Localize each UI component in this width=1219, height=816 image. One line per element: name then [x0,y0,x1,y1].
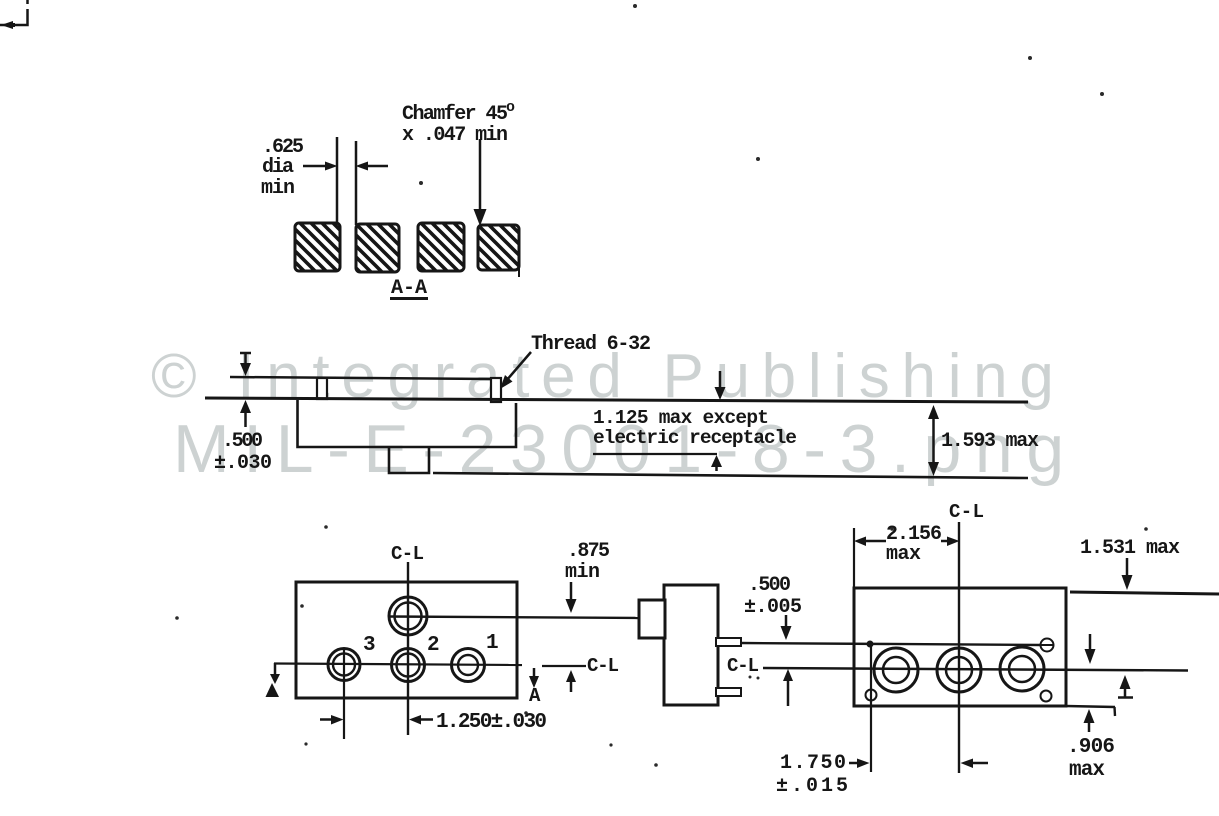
svg-text:1.531 max: 1.531 max [1080,537,1180,560]
section arrow A left [266,663,281,697]
svg-text:.500: .500 [222,430,263,453]
pin line to right view [741,643,1041,645]
label Chamfer 45 x .047 min [402,99,515,147]
top reference line [1070,592,1219,594]
insert hole left [874,648,918,692]
receptacle big circle [389,597,427,635]
hatched square 2 [356,224,399,272]
svg-text:1: 1 [486,632,499,655]
upper centerline to connector [389,617,639,619]
small circle lower right [1041,691,1052,702]
pin numbers [363,632,499,657]
svg-text:A-A: A-A [391,277,427,300]
svg-text:1.125 max except: 1.125 max except [593,407,769,429]
label C-L mid [587,655,619,677]
upper pin [716,638,741,646]
dim 1.593 max [928,405,939,476]
dim .875 min [565,540,610,584]
dim .906 max up arrow [1084,709,1095,732]
1.125 lower reference line [593,453,717,455]
contact hole 3 [328,649,360,681]
svg-text:A: A [529,685,541,707]
svg-text:electric receptacle: electric receptacle [593,427,797,449]
face plate rectangle [296,582,517,698]
thread stud 1 [317,378,327,399]
svg-text:min: min [261,177,295,200]
svg-text:Chamfer 45: Chamfer 45 [402,103,508,126]
extension line sq1 [336,137,339,224]
hatched square 1 [295,223,340,271]
svg-text:±.030: ±.030 [214,452,272,475]
svg-text:C-L: C-L [949,501,984,523]
svg-text:x .047 min: x .047 min [402,124,508,147]
dim 1.250+-.030 [320,715,433,725]
down arrow at centerline right [1085,634,1096,664]
dim 1.531 max [1080,537,1180,560]
left edge extension [853,528,855,588]
dimension arrow pointing left at sq2 edge [356,162,389,171]
bottom edge extension [1066,706,1115,716]
label Thread 6-32 [531,333,651,356]
centerline up arrow [566,670,576,692]
small circle on line lower left [866,690,877,701]
scan specks [175,4,1148,767]
svg-text:o: o [506,99,515,116]
1.125 up arrow [711,455,722,471]
svg-text:1.750: 1.750 [780,752,846,775]
svg-text:C-L: C-L [391,543,424,565]
svg-text:min: min [565,561,600,584]
thread leader arrow [500,352,531,389]
connector body [664,585,718,705]
receptacle notch [389,447,429,473]
label 1.125 max except electric receptacle [593,407,797,449]
chassis bottom line [433,473,1028,478]
up arrow below centerline right [1118,675,1133,698]
contact hole 2 [392,649,425,682]
label C-L top right [949,501,984,523]
right view centerline [763,668,1188,671]
svg-text:.500: .500 [748,574,791,597]
lower pin [716,688,741,696]
up arrow under centerline [783,669,793,706]
row centerline [274,664,522,666]
vertical line from dot [870,644,872,772]
dim 1.750 +-.015 [776,752,848,798]
extension line sq2 [355,141,358,225]
svg-text:2: 2 [427,634,440,657]
chassis top line [205,398,1028,402]
connector left boss [639,600,665,638]
rear housing rectangle [854,588,1066,706]
svg-text:1.593 max: 1.593 max [941,430,1039,453]
corner registration mark [0,0,28,29]
stud top line [230,377,492,379]
chamfer leader arrow down [474,139,487,226]
svg-text:C-L: C-L [727,655,759,677]
dim .500 +-.005 [744,574,802,619]
insert hole center [937,648,981,692]
svg-text:±.005: ±.005 [744,596,802,619]
svg-text:1.250±.030: 1.250±.030 [436,711,547,734]
receptacle body [298,400,517,447]
insert hole right [1000,647,1044,691]
svg-text:.875: .875 [567,540,610,563]
svg-text:.906: .906 [1067,736,1115,759]
hatched square 3 [418,223,464,271]
svg-text:max: max [886,543,921,566]
contact hole 1 [452,649,485,682]
svg-text:C-L: C-L [587,655,619,677]
dimension arrow pointing right at sq1 edge [303,162,338,171]
svg-text:dia: dia [262,156,294,179]
dim 1.125 max leader down arrow [715,371,726,400]
wire dot [867,641,874,648]
svg-text:max: max [1069,759,1105,782]
svg-text:3: 3 [363,634,376,657]
label .625 dia min [261,136,304,200]
grommet circle with bar [1041,639,1054,652]
svg-text:Thread 6-32: Thread 6-32 [531,333,651,356]
thread stud 2 [491,378,501,402]
section label A-A [391,277,427,300]
section arrow A right [529,668,539,688]
vertical centerline [407,562,409,735]
hatched square 4 [478,225,519,270]
vertical centerline [958,522,960,773]
svg-text:±.015: ±.015 [776,775,848,798]
label C-L top [391,543,424,565]
label C-L right of connector [727,655,759,677]
dim .500 +-.030 [240,353,251,427]
dim 2.156 max [886,523,942,566]
square 4 edge tail [518,268,520,277]
